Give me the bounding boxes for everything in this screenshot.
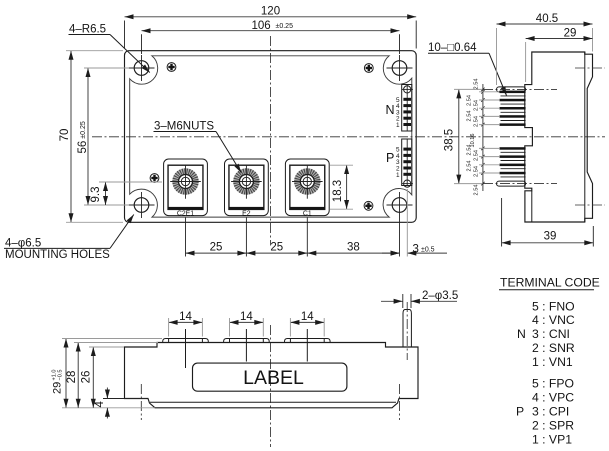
dimension 70	[70, 51, 72, 223]
svg-text:38: 38	[347, 241, 360, 253]
svg-text:−0.5: −0.5	[58, 369, 64, 380]
svg-text:LABEL: LABEL	[243, 367, 304, 389]
svg-text:1: 1	[396, 122, 400, 129]
dimension 9.3	[105, 182, 107, 205]
svg-text:C2E1: C2E1	[177, 210, 194, 217]
svg-text:2.54: 2.54	[474, 150, 480, 161]
svg-text:N: N	[517, 327, 526, 341]
dimension 14 (E2 bump)	[230, 321, 264, 323]
bottom-left tab line	[531, 191, 533, 222]
N pins 5-1	[403, 98, 411, 101]
svg-text:E2: E2	[242, 210, 251, 217]
svg-text:2.54: 2.54	[474, 116, 480, 127]
hole centerline marks on flange (side view)	[575, 67, 605, 69]
svg-text:2.54: 2.54	[474, 100, 480, 111]
dimension 14 (C1 bump)	[290, 321, 324, 323]
svg-text:40.5: 40.5	[536, 13, 558, 25]
svg-text:MOUNTING HOLES: MOUNTING HOLES	[5, 249, 110, 261]
horizontal centerline of module	[92, 136, 605, 138]
svg-text:4–φ6.5: 4–φ6.5	[5, 237, 41, 249]
N pins (side view)	[500, 91, 526, 126]
svg-text:1 : VN1: 1 : VN1	[532, 355, 573, 369]
side view body outline	[525, 52, 593, 222]
dimension 40.5	[497, 23, 593, 25]
svg-text:25: 25	[210, 241, 223, 253]
hole centerline left (front view)	[140, 384, 142, 420]
svg-text:2.54: 2.54	[474, 185, 480, 196]
svg-text:14: 14	[240, 311, 253, 323]
pin extension lines	[479, 92, 499, 173]
svg-text:3 : CNI: 3 : CNI	[532, 327, 570, 341]
hole centerline right (front view)	[399, 384, 401, 420]
dimension 3 ±0.5	[382, 252, 400, 254]
case screw top-right	[364, 64, 373, 73]
screw terminal E2	[225, 159, 269, 217]
svg-text:3–M6NUTS: 3–M6NUTS	[154, 121, 214, 133]
svg-text:70: 70	[59, 129, 71, 142]
terminal bump C1 (front)	[285, 339, 331, 344]
mounting hole bottom-right	[387, 192, 413, 218]
baseplate joint line	[150, 401, 396, 403]
dimension 56 ±0.25	[87, 68, 89, 205]
svg-text:2.54: 2.54	[467, 111, 473, 122]
svg-text:39: 39	[544, 231, 557, 243]
svg-text:25: 25	[270, 241, 283, 253]
svg-text:C1: C1	[303, 210, 312, 217]
case screw bottom-left	[150, 174, 159, 183]
svg-text:3: 3	[413, 243, 419, 255]
svg-text:9.3: 9.3	[90, 187, 102, 203]
svg-text:106: 106	[252, 20, 271, 32]
svg-text:2 : SPR: 2 : SPR	[532, 419, 574, 433]
svg-text:5 : FNO: 5 : FNO	[532, 299, 575, 313]
LABEL plate	[193, 363, 347, 391]
svg-text:4 : VNC: 4 : VNC	[532, 313, 575, 327]
dimension 29 +1.0/-0.5	[65, 339, 67, 408]
P pins (side view)	[500, 147, 526, 177]
vertical centerline of module (upper segment)	[270, 36, 272, 246]
svg-text:P: P	[386, 151, 394, 165]
dimension 4 (flange step)	[103, 398, 146, 400]
terminal bump C2E1 (front)	[163, 339, 209, 344]
svg-text:TERMINAL CODE: TERMINAL CODE	[500, 276, 600, 290]
case screw top-left	[167, 63, 176, 72]
svg-text:14: 14	[179, 311, 192, 323]
svg-text:3 : CPI: 3 : CPI	[532, 405, 569, 419]
module outer outline	[125, 51, 417, 223]
baseplate edge line	[584, 52, 586, 222]
svg-text:29: 29	[564, 27, 577, 39]
svg-text:1 : VP1: 1 : VP1	[532, 433, 572, 447]
svg-text:56±0.25: 56±0.25	[77, 121, 89, 153]
dimension 25 (C2E1-E2)	[186, 252, 247, 254]
dimension 18.3 (terminal opening)	[346, 165, 348, 209]
svg-text:N: N	[386, 103, 395, 117]
svg-text:28: 28	[66, 371, 78, 384]
svg-text:29: 29	[52, 382, 64, 394]
dimension 38.5 (pin span)	[458, 89, 460, 183]
svg-text:±0.5: ±0.5	[421, 246, 435, 253]
dimension 14 (C2E1 bump)	[169, 321, 203, 323]
svg-text:±0.25: ±0.25	[276, 23, 294, 30]
dimension 28	[77, 343, 79, 408]
svg-text:4: 4	[94, 401, 106, 408]
2.54 pitch chain line	[482, 84, 484, 191]
dimension 120	[125, 16, 417, 18]
svg-text:2.54: 2.54	[467, 95, 473, 106]
2.54 labels	[467, 79, 480, 196]
terminal bump E2 (front)	[224, 339, 270, 344]
screw terminal C1	[285, 159, 329, 217]
svg-text:1: 1	[396, 172, 400, 179]
front view body outline	[125, 343, 419, 408]
dimension 39	[502, 242, 594, 244]
svg-text:26: 26	[81, 371, 93, 384]
svg-text:4 : VPC: 4 : VPC	[532, 391, 574, 405]
svg-text:2–φ3.5: 2–φ3.5	[422, 290, 458, 302]
svg-text:14: 14	[301, 311, 314, 323]
vertical centerline of module (lower segment through front view)	[270, 325, 272, 447]
svg-text:38.5: 38.5	[444, 129, 456, 151]
svg-text:18.3: 18.3	[332, 180, 344, 202]
signal pin block N	[402, 85, 412, 132]
svg-text:2.54: 2.54	[474, 166, 480, 177]
svg-text:P: P	[516, 405, 524, 419]
chain tick arrows	[481, 88, 484, 186]
dimension 106 ±0.25	[142, 30, 400, 32]
guide pin top (side view)	[483, 88, 557, 90]
guide pin boss P (bottom)	[404, 180, 411, 187]
dimension 29 (body)	[526, 38, 593, 40]
svg-text:10–□0.64: 10–□0.64	[428, 42, 477, 54]
dimension 25 (E2-C1)	[246, 252, 307, 254]
dimension 26	[92, 347, 94, 408]
guide pin boss N (top)	[404, 86, 411, 93]
svg-text:2.54: 2.54	[474, 79, 480, 90]
mounting hole bottom-left	[129, 192, 155, 218]
svg-text:2.54: 2.54	[467, 161, 473, 172]
svg-text:4–R6.5: 4–R6.5	[69, 24, 106, 36]
svg-text:5 : FPO: 5 : FPO	[532, 377, 574, 391]
placeholder groups filled in later	[129, 55, 413, 218]
svg-text:120: 120	[261, 6, 280, 18]
signal pin block P	[402, 139, 412, 186]
dimension 38	[307, 252, 399, 254]
svg-text:2.54: 2.54	[467, 145, 473, 156]
guide pin (front view)	[403, 310, 411, 348]
mounting hole top-right	[387, 55, 413, 81]
svg-text:2 : SNR: 2 : SNR	[532, 341, 575, 355]
screw terminal C2E1	[164, 159, 208, 217]
mounting hole top-left	[129, 55, 155, 81]
case screw bottom-right	[364, 201, 373, 210]
module inner body outline with corner ear fillets	[130, 56, 412, 217]
P pins 5-1	[403, 148, 411, 151]
guide pin bottom (side view)	[483, 183, 557, 185]
